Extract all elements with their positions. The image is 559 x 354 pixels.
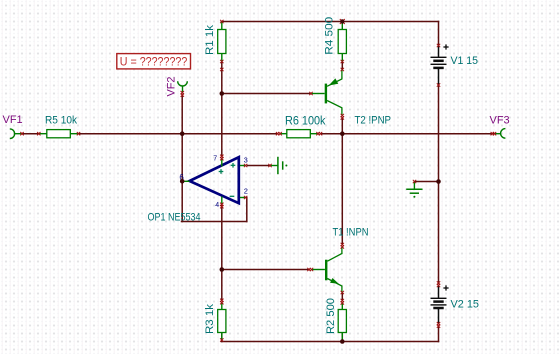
wire: T2 base wire <box>222 93 311 95</box>
wire: top supply rail <box>221 21 438 23</box>
svg-text:R5 10k: R5 10k <box>45 114 77 126</box>
svg-text:R6 100k: R6 100k <box>285 113 326 127</box>
wire: node A column to op-amp output and feedback corner <box>181 134 183 222</box>
op-amp plus mark pin7 <box>219 169 224 174</box>
svg-text:R2 500: R2 500 <box>325 298 337 334</box>
battery V2 <box>431 285 449 324</box>
resistor R2 <box>338 303 346 342</box>
transistor T2 (PNP) <box>311 70 342 116</box>
svg-text:R3 1k: R3 1k <box>204 303 216 334</box>
wire: op-amp pin 4 down to node B and R3 <box>221 206 223 300</box>
svg-text:VF1: VF1 <box>3 114 23 126</box>
wire: main signal line R5 to R6 <box>79 133 278 135</box>
op-amp pin 2 stub <box>240 197 245 199</box>
node: R2 bottom on rail <box>340 339 345 344</box>
svg-text:T2 !PNP: T2 !PNP <box>355 115 392 127</box>
node G: ground on supply column <box>436 179 441 184</box>
svg-text:R1 1k: R1 1k <box>204 24 216 55</box>
wire: R3 bottom to rail <box>221 334 223 342</box>
svg-text:OP1 NE5534: OP1 NE5534 <box>148 212 201 224</box>
node: output node on main line <box>340 131 345 136</box>
op-amp pin 3 stub <box>240 165 245 167</box>
op-amp pin 4 stub <box>221 197 223 205</box>
op-amp minus mark pin2 <box>230 195 235 197</box>
wire: T2 emitter column to output node <box>341 118 343 134</box>
svg-text:7: 7 <box>213 155 217 162</box>
svg-text:VF2: VF2 <box>165 77 177 97</box>
transistor T1 (NPN) <box>311 247 342 293</box>
svg-text:T1 !NPN: T1 !NPN <box>333 227 369 239</box>
svg-text:VF3: VF3 <box>490 114 510 126</box>
node: op-amp output pin 6 <box>180 179 185 184</box>
wire: T1 emitter to R2 link <box>341 293 343 301</box>
wire: pin3 to ground 2 <box>248 165 271 167</box>
wire: R1 bottom to op-amp pin 7 column <box>221 62 223 157</box>
svg-text:2: 2 <box>244 186 248 195</box>
node: T2 base / R1 column <box>220 91 225 96</box>
wire: bottom supply rail <box>221 341 438 343</box>
op-amp plus mark pin3 <box>231 163 236 168</box>
wire: output node down to T1 collector <box>341 134 343 245</box>
ground GND1 (at supply rail) <box>406 182 422 194</box>
wire: T1 base wire <box>222 269 309 271</box>
svg-text:R4 500: R4 500 <box>323 17 335 55</box>
svg-text:3: 3 <box>244 156 248 165</box>
resistor R1 <box>218 22 226 62</box>
terminal VF2 <box>178 81 188 92</box>
svg-text:U = ????????: U = ???????? <box>120 56 188 68</box>
op-amp U1 triangle <box>190 157 239 203</box>
wire: R2 bottom to rail <box>341 334 343 342</box>
node: R4 top on rail <box>340 19 345 24</box>
svg-text:V1 15: V1 15 <box>451 55 479 67</box>
wire: V2 minus down to bottom rail corner <box>438 326 440 342</box>
wire: main/output line R6 to VF3 <box>320 133 493 135</box>
wire: top rail corner down to V1 <box>438 22 440 46</box>
resistor R6 <box>280 130 318 138</box>
battery V1 <box>431 44 449 85</box>
resistor R3 <box>218 303 226 341</box>
node B: T1 base / R3 column <box>220 267 225 272</box>
annotation box U = ???????? <box>117 54 191 69</box>
op-amp pin 6 stub <box>183 180 190 182</box>
resistor R4 <box>338 22 346 62</box>
op-amp pin 7 stub <box>221 158 223 166</box>
terminal VF1 <box>10 129 22 139</box>
wire: main signal line VF1 to R5 <box>22 133 39 135</box>
wire: feedback riser to pin 2 <box>246 198 247 222</box>
node A (main line / VF2 / op-amp output) <box>180 131 185 136</box>
svg-text:4: 4 <box>215 202 219 209</box>
wire: R4 bottom short link <box>341 62 343 70</box>
wire: ground stub wire at node G <box>415 181 439 183</box>
ground GND2 (at op-amp pin 3) <box>270 157 283 174</box>
svg-text:V2 15: V2 15 <box>451 299 480 311</box>
terminal VF3 <box>494 129 506 139</box>
resistor R5 <box>39 130 79 138</box>
wire: VF2 drop to main line <box>181 95 183 134</box>
wire: feedback bottom horizontal <box>182 221 247 223</box>
wire: V1 minus to ground node and V2 plus <box>438 85 440 284</box>
pin-end x marks <box>20 20 496 342</box>
